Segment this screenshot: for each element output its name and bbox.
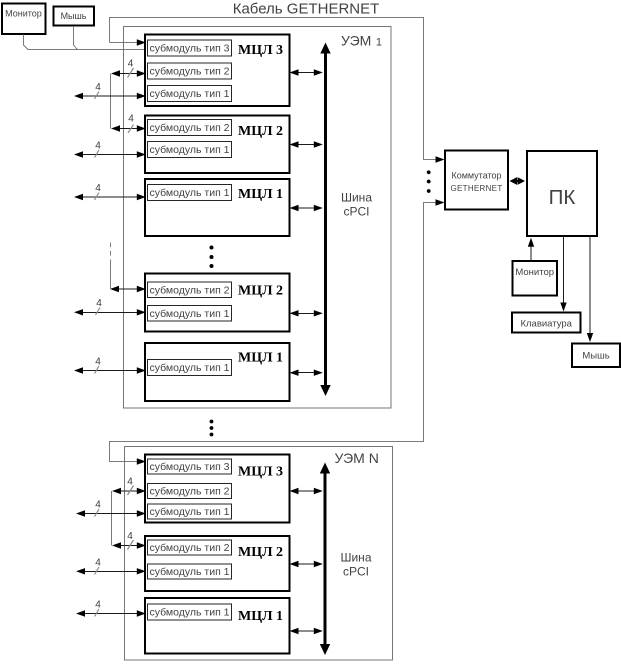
- left double arrow MCL2 type2 (UEM 1): [111, 125, 146, 131]
- submodule type 3 box (MCL 3 UEM 1): [148, 40, 232, 56]
- submodule type 2 box (MCL 2 UEM 1): [148, 120, 232, 136]
- svg-text:субмодуль тип 1: субмодуль тип 1: [150, 88, 230, 100]
- bus-width slash and 4 (MCL3 type1): [95, 82, 102, 99]
- submodule type 2 box (MCL 2 UEM N): [148, 540, 232, 555]
- bus-width slash and 4 (MCL1-second type1): [95, 357, 102, 374]
- svg-text:4: 4: [95, 500, 101, 511]
- svg-text:субмодуль тип 1: субмодуль тип 1: [150, 308, 230, 320]
- bus-width slash and 4 (MCL3 type2): [128, 59, 134, 78]
- svg-text:4: 4: [95, 82, 101, 93]
- svg-text:субмодуль тип 2: субмодуль тип 2: [150, 122, 230, 134]
- svg-text:4: 4: [128, 59, 134, 70]
- submodule type 3 box (MCL 3 UEM N): [148, 459, 232, 474]
- switch Kommutator GETHERNET box: [445, 151, 508, 210]
- submodule type 1 box (MCL 3 UEM 1): [148, 86, 232, 102]
- svg-text:субмодуль тип 3: субмодуль тип 3: [150, 43, 230, 55]
- wire vertical bus between type2 arrows (UEM N): [111, 491, 113, 546]
- arrow cable into submodule type 3: [137, 39, 146, 45]
- PC box: [527, 151, 597, 236]
- arrow cable into switch bottom: [436, 199, 445, 205]
- svg-text:МЦЛ 1: МЦЛ 1: [238, 187, 283, 202]
- MCL 1 box (UEM N): [145, 598, 290, 654]
- label Shina cPCI (UEM 1): [341, 191, 372, 219]
- svg-text:ПК: ПК: [549, 186, 576, 209]
- svg-text:УЭМ N: УЭМ N: [335, 450, 379, 466]
- right double arrow MCL2 to cPCI bus (UEM 1): [290, 141, 323, 147]
- left double arrow MCL1 type1 (UEM N): [76, 610, 146, 616]
- svg-text:МЦЛ 3: МЦЛ 3: [238, 465, 283, 480]
- left double arrow MCL2-second type1 (UEM 1): [74, 309, 146, 315]
- svg-text:Коммутатор: Коммутатор: [451, 171, 501, 181]
- submodule type 2 box (MCL 3 UEM N): [148, 484, 232, 499]
- svg-text:4: 4: [96, 298, 102, 309]
- arrow cable into switch top: [436, 156, 445, 162]
- bus-width slash and 4 (MCL2-second type1): [96, 298, 103, 315]
- right double arrow MCL2-second to cPCI bus (UEM 1): [290, 310, 323, 316]
- left double arrow MCL2 type1 (UEM 1): [74, 151, 146, 157]
- bus-width slash and 4 (MCL2 type2 UEM N): [127, 531, 133, 550]
- svg-text:Шина: Шина: [340, 551, 371, 565]
- svg-text:cPCI: cPCI: [343, 565, 369, 579]
- svg-text:Монитор: Монитор: [5, 9, 42, 19]
- submodule type 1 box (MCL 1 UEM N): [148, 604, 232, 620]
- svg-text:субмодуль тип 1: субмодуль тип 1: [150, 144, 230, 156]
- right double arrow MCL2 to cPCI bus (UEM N): [290, 561, 323, 567]
- svg-text:4: 4: [127, 477, 133, 488]
- svg-text:УЭМ1: УЭМ1: [341, 33, 382, 49]
- svg-text:МЦЛ 1: МЦЛ 1: [238, 351, 283, 366]
- bus-width slash and 4 (MCL1 type1 UEM N): [95, 600, 102, 617]
- submodule type 1 box (MCL 3 UEM N): [148, 504, 232, 519]
- cPCI bus vertical double arrow (UEM 1): [320, 43, 330, 397]
- MCL 2 box (UEM 1): [145, 116, 290, 174]
- monitor box (top-left KVM): [2, 4, 46, 35]
- svg-text:МЦЛ 1: МЦЛ 1: [238, 609, 283, 624]
- svg-text:субмодуль тип 1: субмодуль тип 1: [150, 362, 230, 374]
- wire dashed continuation bus (UEM1 lower group): [110, 243, 112, 290]
- monitor box (right, PC): [513, 261, 558, 296]
- MCL 1 box (UEM 1): [145, 179, 290, 236]
- left double arrow MCL3 type2 (UEM N): [112, 488, 146, 494]
- dots ellipsis inside UEM 1: [210, 246, 214, 269]
- UEM N enclosure box: [125, 447, 393, 661]
- svg-text:Кабель GETHERNET: Кабель GETHERNET: [233, 1, 380, 18]
- svg-text:Шина: Шина: [341, 191, 372, 205]
- dots ellipsis between UEM sections: [210, 420, 214, 437]
- svg-text:cPCI: cPCI: [343, 205, 369, 219]
- MCL 1 second box (UEM 1): [145, 343, 290, 401]
- wire cable GETHERNET lower run from switch to UEM N: [110, 203, 438, 462]
- svg-text:субмодуль тип 1: субмодуль тип 1: [150, 506, 230, 518]
- submodule type 2 box (MCL 3 UEM 1): [148, 63, 232, 79]
- cPCI bus vertical double arrow (UEM N): [320, 463, 330, 656]
- svg-text:4: 4: [128, 114, 134, 125]
- right double arrow MCL3 to cPCI bus (UEM N): [290, 488, 323, 494]
- svg-text:4: 4: [95, 558, 101, 569]
- svg-text:4: 4: [95, 600, 101, 611]
- svg-text:Мышь: Мышь: [582, 351, 609, 362]
- bus-width slash and 4 (MCL2 type1): [95, 141, 102, 158]
- left double arrow MCL3 type2 (UEM 1): [111, 70, 146, 76]
- wire vertical bus between type2 arrows (UEM1 upper): [110, 74, 112, 129]
- bus-width slash and 4 (MCL2 type1 UEM N): [95, 558, 102, 575]
- submodule type 1 box (MCL 2 UEM N): [148, 564, 232, 579]
- submodule type 1 box (MCL 2 UEM 1): [148, 142, 232, 158]
- bus-width slash and 4 (MCL3 type1 UEM N): [95, 500, 102, 517]
- right double arrow MCL1-second to cPCI bus (UEM 1): [290, 370, 323, 376]
- svg-text:4: 4: [127, 531, 133, 542]
- right double arrow MCL1 to cPCI bus (UEM N): [290, 628, 323, 634]
- svg-text:субмодуль тип 2: субмодуль тип 2: [150, 542, 230, 554]
- submodule type 2 box (MCL 2 second UEM 1): [148, 282, 232, 298]
- wire cable branch into UEM1 MCL3 submodule type 3: [110, 42, 139, 44]
- svg-text:МЦЛ 3: МЦЛ 3: [238, 43, 283, 58]
- arrow cable into UEM N submodule type 3: [137, 458, 146, 464]
- svg-text:4: 4: [95, 357, 101, 368]
- svg-text:Мышь: Мышь: [61, 11, 87, 21]
- svg-text:субмодуль тип 3: субмодуль тип 3: [150, 461, 230, 473]
- arrow from PC down to mouse: [587, 237, 593, 342]
- MCL 2 second box (UEM 1): [145, 274, 290, 332]
- MCL 2 box (UEM N): [145, 536, 290, 591]
- svg-text:GETHERNET: GETHERNET: [450, 184, 502, 193]
- right double arrow MCL3 to cPCI bus (UEM 1): [290, 69, 323, 75]
- mouse box (top-left KVM): [54, 7, 95, 26]
- svg-text:субмодуль тип 2: субмодуль тип 2: [150, 285, 230, 297]
- svg-text:4: 4: [95, 183, 101, 194]
- svg-text:субмодуль тип 1: субмодуль тип 1: [150, 566, 230, 578]
- svg-text:субмодуль тип 2: субмодуль тип 2: [150, 66, 230, 78]
- left double arrow MCL3 type1 (UEM N): [76, 510, 146, 516]
- svg-text:4: 4: [95, 141, 101, 152]
- svg-text:субмодуль тип 1: субмодуль тип 1: [150, 187, 230, 199]
- arrow from monitor up into PC: [528, 238, 534, 261]
- left double arrow MCL2 type2 (UEM N): [112, 542, 146, 548]
- svg-text:Монитор: Монитор: [515, 267, 554, 278]
- dots ellipsis near switch: [427, 170, 431, 193]
- svg-text:субмодуль тип 2: субмодуль тип 2: [150, 486, 230, 498]
- double arrow switch to PC: [510, 177, 526, 185]
- svg-text:МЦЛ 2: МЦЛ 2: [238, 545, 283, 560]
- bus-width slash and 4 (MCL2 type2): [128, 114, 134, 134]
- bus-width slash and 4 (MCL1 type1): [95, 183, 102, 200]
- submodule type 1 box (MCL 2 second UEM 1): [148, 306, 232, 322]
- mouse box (right, PC): [572, 344, 620, 368]
- svg-text:Клавиатура: Клавиатура: [520, 319, 572, 330]
- svg-text:МЦЛ 2: МЦЛ 2: [238, 284, 283, 299]
- left double arrow MCL2-second type2 (UEM 1): [110, 286, 146, 292]
- wire cable GETHERNET top run to switch: [110, 18, 438, 160]
- left double arrow MCL3 type1 (UEM 1): [74, 93, 146, 99]
- keyboard box (right, PC): [512, 313, 581, 333]
- wire from monitor to submodule type 3 of MCL 3: [24, 35, 146, 50]
- svg-text:субмодуль тип 1: субмодуль тип 1: [150, 607, 230, 619]
- bus-width slash and 4 (MCL3 type2 UEM N): [127, 477, 133, 496]
- MCL 3 box (UEM 1): [145, 35, 290, 107]
- label Shina cPCI (UEM N): [340, 551, 371, 579]
- submodule type 1 box (MCL 1 UEM 1): [148, 185, 232, 201]
- wire from mouse joining monitor wire: [74, 26, 78, 50]
- right double arrow MCL1 to cPCI bus (UEM 1): [290, 205, 323, 211]
- left double arrow MCL1-second type1 (UEM 1): [74, 367, 146, 373]
- left double arrow MCL1 type1 (UEM 1): [74, 194, 146, 200]
- left double arrow MCL2 type1 (UEM N): [76, 568, 146, 574]
- UEM 1 enclosure box: [124, 27, 392, 409]
- arrow from PC down to keyboard: [560, 237, 566, 312]
- MCL 3 box (UEM N): [145, 455, 290, 523]
- submodule type 1 box (MCL 1 second UEM 1): [148, 360, 232, 376]
- svg-text:МЦЛ 2: МЦЛ 2: [238, 124, 283, 139]
